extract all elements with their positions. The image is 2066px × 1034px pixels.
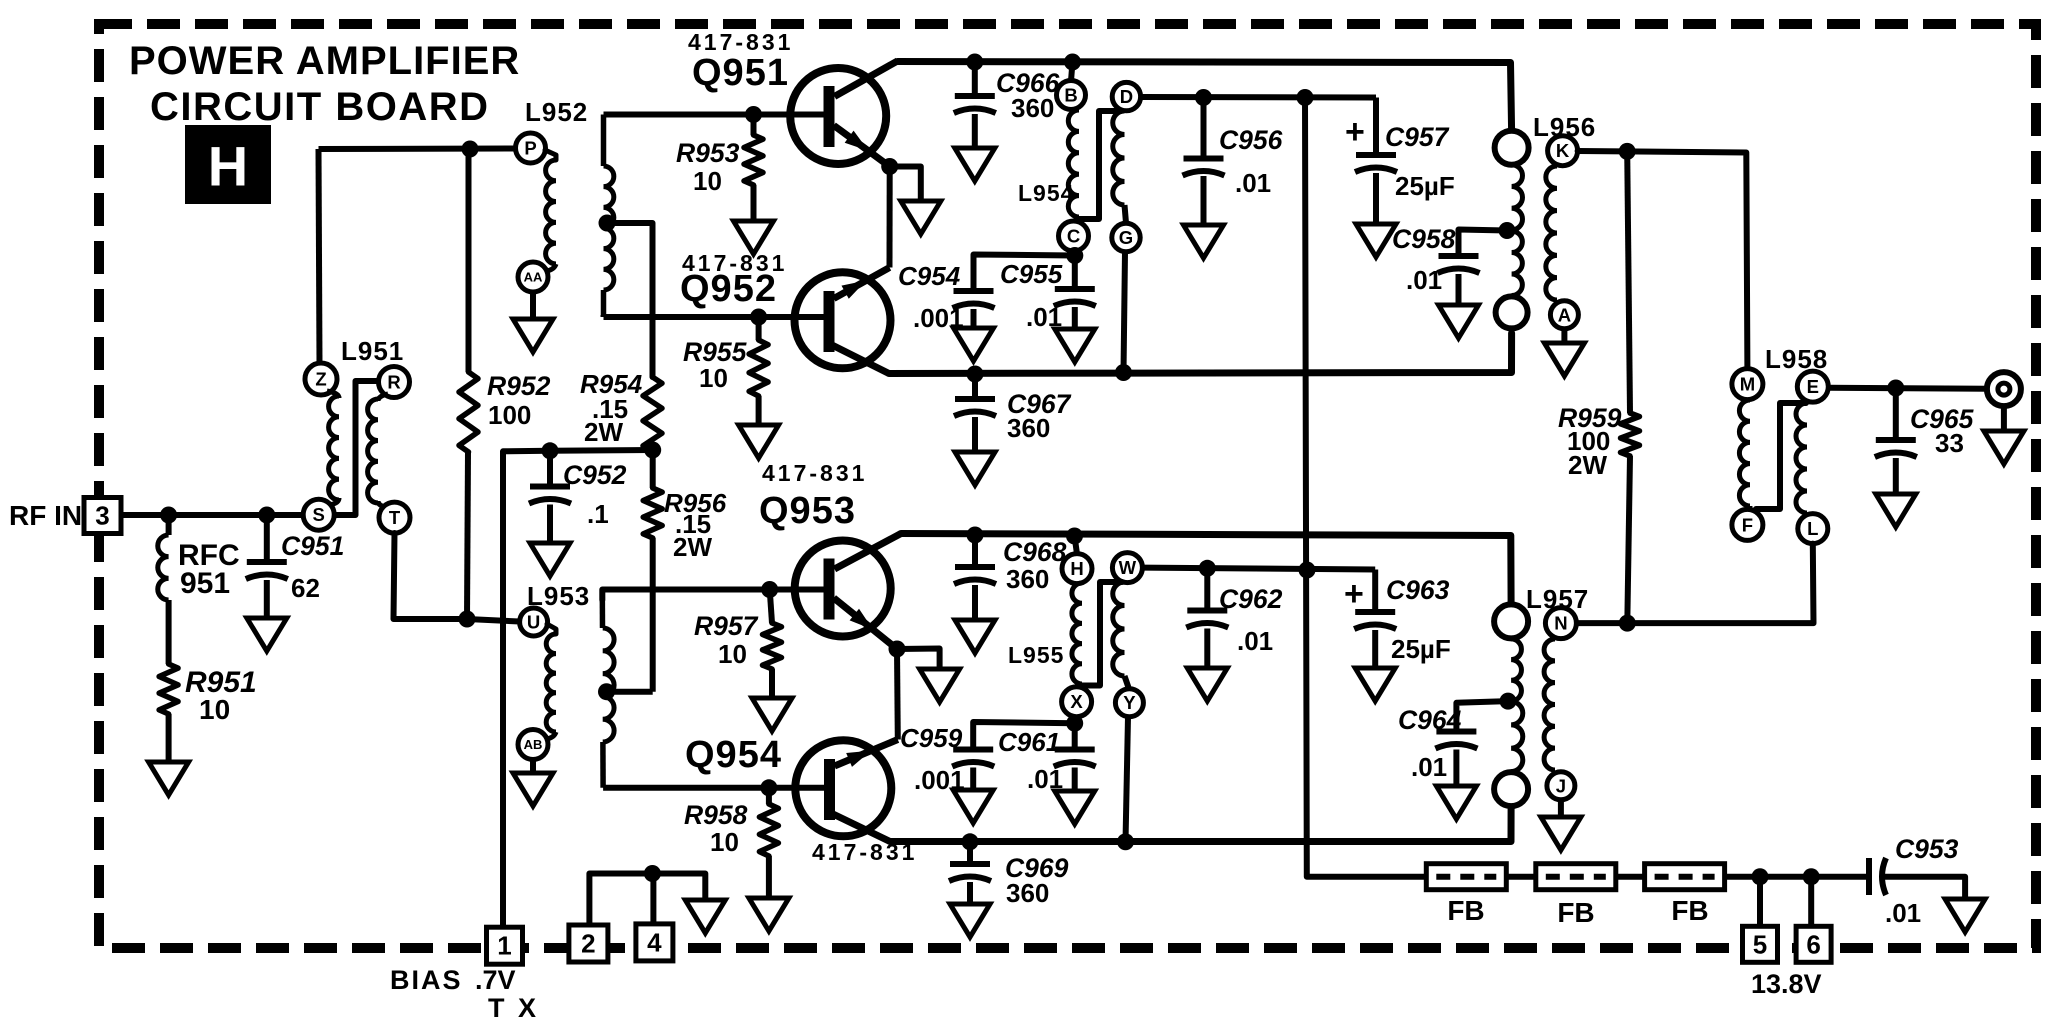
wire W bus (1142, 568, 1375, 570)
svg-text:.01: .01 (1885, 898, 1921, 928)
svg-text:B: B (1064, 85, 1077, 106)
transformer L952 primary P-AA (545, 150, 556, 271)
wire FB3 to C953 (1725, 874, 1869, 880)
R951 label (185, 666, 257, 725)
svg-text:Q951: Q951 (692, 52, 789, 94)
node junction Y bus (1117, 833, 1134, 850)
node junction K bus (1619, 143, 1636, 160)
TX label (488, 993, 539, 1023)
ground for 2-4 bracket (685, 900, 725, 933)
svg-text:L958: L958 (1765, 344, 1828, 374)
svg-text:U: U (527, 612, 540, 633)
node Y (1115, 689, 1143, 717)
svg-text:C964: C964 (1398, 705, 1462, 735)
node junction Q951 base (745, 106, 762, 123)
wire C969-gnd (967, 882, 973, 904)
svg-text:K: K (1556, 140, 1570, 161)
capacitor C965 (1875, 440, 1917, 457)
wire C959-gnd (970, 768, 976, 791)
resistor R955 (749, 340, 768, 396)
node AB (518, 730, 548, 760)
ground for C954 (954, 328, 994, 361)
wire R953-gnd (751, 185, 757, 221)
svg-text:C: C (1067, 226, 1080, 247)
svg-text:360: 360 (1011, 93, 1054, 123)
R956 label (664, 488, 727, 562)
inductor L957 secondary N-J (1544, 639, 1555, 770)
svg-text:C963: C963 (1386, 575, 1450, 605)
svg-text:10: 10 (718, 639, 747, 669)
wire Q953 emitter tap (897, 649, 940, 670)
wire A-gnd (1561, 329, 1567, 343)
resistor R951 (159, 664, 178, 714)
node junction Q954 base (760, 779, 777, 796)
wire R959 lower (1627, 456, 1630, 623)
wire RF input bus (121, 512, 304, 518)
svg-text:C957: C957 (1385, 122, 1450, 152)
ground for Q951 emitter (901, 201, 941, 234)
wire R956 stub (650, 450, 656, 488)
node junction terminal 6 (1803, 868, 1820, 885)
FB1 label (1447, 895, 1484, 926)
svg-text:E: E (1807, 376, 1819, 397)
inductor L955 winding W-Y (1113, 582, 1129, 689)
node junction B (1064, 54, 1081, 71)
L957 label (1526, 584, 1589, 614)
node junction supply riser W bus (1299, 562, 1316, 579)
wire C954-C955 bracket (974, 255, 1075, 292)
inductor L957 top terminal (1494, 604, 1528, 638)
wire L954 strap D-C (1078, 111, 1121, 219)
svg-text:25µF: 25µF (1391, 634, 1451, 664)
Q954 part number label (812, 839, 917, 865)
svg-text:C953: C953 (1895, 834, 1959, 864)
svg-text:13.8V: 13.8V (1751, 969, 1822, 999)
ground for O (1984, 431, 2024, 464)
inductor L956 bottom terminal (1496, 296, 1528, 328)
Q951 part number label (688, 29, 793, 55)
Q951 label (692, 52, 789, 94)
wire terminal 5 stub (1757, 877, 1763, 927)
inductor L955 winding H-X (1072, 583, 1082, 688)
terminal 4 (636, 924, 673, 961)
transformer L958 winding E-L (1796, 403, 1807, 513)
capacitor C953 (series) (1869, 858, 1886, 895)
wire C963-gnd (1372, 630, 1378, 668)
wire C963 stub (1372, 570, 1378, 613)
svg-text:33: 33 (1935, 428, 1964, 458)
inductor L956 secondary K-A (1546, 166, 1557, 300)
C965 label (1910, 404, 1975, 458)
wire C953 to gnd (1884, 877, 1965, 899)
svg-text:4: 4 (647, 927, 662, 957)
ferrite bead FB3 (1645, 864, 1725, 890)
wire Y to output bus (1126, 717, 1129, 842)
capacitor C956 (1183, 159, 1225, 176)
node T (379, 502, 410, 533)
wire U bus (467, 619, 520, 622)
svg-text:951: 951 (180, 567, 230, 600)
node Z (305, 363, 337, 395)
wire C965-gnd (1893, 458, 1899, 494)
ground for C957 (1356, 224, 1396, 257)
svg-text:.01: .01 (1235, 168, 1271, 198)
wire C961 stub (1072, 723, 1078, 749)
wire T to U-bus (394, 533, 468, 619)
wire terminal 4 stub (650, 874, 656, 925)
capacitor C968 (954, 567, 996, 584)
transformer L952 secondary (604, 115, 614, 318)
svg-text:FB: FB (1447, 895, 1484, 926)
svg-text:10: 10 (710, 827, 739, 857)
node X (1062, 687, 1092, 717)
transformer L958 winding M-F (1739, 400, 1750, 510)
wire C964-gnd (1453, 750, 1459, 787)
node junction Q951 emitter (881, 158, 898, 175)
BIAS label (390, 965, 516, 995)
node junction U bus (459, 611, 476, 628)
node junction C968 (967, 527, 984, 544)
node K (1548, 136, 1578, 166)
wire R957-gnd (769, 669, 775, 698)
svg-text:POWER AMPLIFIER: POWER AMPLIFIER (129, 39, 520, 83)
node junction below X (1066, 715, 1083, 732)
node junction G bus (1115, 364, 1132, 381)
svg-text:S: S (313, 504, 325, 525)
svg-text:417-831: 417-831 (762, 460, 867, 486)
wire C962-gnd (1204, 629, 1210, 669)
wire X stub (1075, 717, 1077, 724)
wire RFC951 stub (166, 515, 172, 535)
Q952 label (680, 268, 777, 310)
svg-text:2W: 2W (673, 532, 712, 562)
svg-text:C952: C952 (563, 460, 627, 490)
svg-text:Q954: Q954 (685, 734, 782, 776)
L958 label (1765, 344, 1828, 374)
svg-text:T: T (389, 507, 401, 528)
capacitor C966 (954, 96, 996, 113)
wire R958 stub (766, 788, 772, 804)
ground for C965 (1876, 494, 1916, 527)
wire C968-gnd (972, 585, 978, 620)
svg-text:BIAS: BIAS (390, 965, 463, 995)
node junction L956 center tap (1499, 222, 1516, 239)
C967 label (1007, 389, 1072, 443)
capacitor C955 (1054, 289, 1096, 306)
svg-text:Q952: Q952 (680, 268, 777, 310)
wire L952 secondary bottom to Q952 base (604, 315, 759, 317)
wire C stub (1074, 251, 1075, 256)
svg-text:L952: L952 (525, 97, 588, 127)
C961 label (998, 727, 1063, 794)
svg-text:X: X (1070, 691, 1083, 712)
R954 label (580, 369, 643, 447)
node junction L952 center tap (599, 215, 616, 232)
svg-text:R958: R958 (684, 800, 748, 830)
svg-text:10: 10 (199, 694, 230, 725)
capacitor C962 (1186, 611, 1228, 628)
wire L952 secondary top to Q951 base (604, 112, 754, 118)
C955 label (1000, 259, 1063, 332)
wire L955 strap W-X (1079, 582, 1122, 686)
node C (1059, 221, 1089, 251)
node junction L953 center tap (598, 683, 615, 700)
ground for R951 (149, 762, 189, 795)
svg-text:L953: L953 (527, 581, 590, 611)
svg-text:+: + (1345, 113, 1365, 151)
transformer L953 primary U-AB (546, 624, 556, 739)
Q952 part number label (682, 250, 787, 276)
wire L953 secondary top to Q953 base (602, 590, 769, 601)
terminal 5 (1743, 926, 1778, 962)
wire bias line (503, 451, 550, 927)
wire Q954 collector bus (890, 807, 1511, 842)
node W (1112, 553, 1142, 583)
svg-text:J: J (1556, 775, 1566, 796)
wire Q952 collector bus (889, 333, 1512, 374)
svg-text:R: R (387, 372, 400, 393)
svg-text:C956: C956 (1219, 125, 1283, 155)
transformer L951 winding R-T (368, 394, 388, 507)
transistor Q953 (770, 534, 901, 650)
svg-text:2: 2 (581, 929, 595, 959)
L952 label (525, 97, 588, 127)
wire Q951 emitter tap (890, 167, 921, 202)
C969 label (1005, 853, 1069, 908)
node junction Q953 base (761, 581, 778, 598)
wire AA-gnd (530, 292, 536, 319)
wire C957-gnd (1373, 173, 1379, 224)
svg-text:C959: C959 (900, 723, 963, 753)
node junction below C (1066, 247, 1083, 264)
ground for C969 (950, 904, 990, 937)
C966 label (996, 68, 1060, 123)
svg-text:C951: C951 (281, 531, 344, 561)
svg-text:FB: FB (1557, 897, 1594, 928)
wire C954-gnd (971, 309, 977, 328)
ground for R957 (752, 698, 792, 731)
wire C962 stub (1204, 568, 1210, 610)
svg-text:100: 100 (488, 400, 531, 430)
ground for AB (513, 773, 553, 806)
svg-text:+: + (1344, 575, 1364, 613)
C952 label (563, 460, 627, 529)
resistor R954 (643, 377, 662, 452)
wire R952 upper (466, 149, 472, 372)
wire C951 stub (264, 515, 270, 562)
transformer L953 secondary (602, 591, 614, 788)
capacitor C954 (953, 291, 995, 308)
svg-text:2W: 2W (1568, 450, 1607, 480)
svg-text:A: A (1558, 304, 1571, 325)
wire C967-gnd (972, 417, 978, 452)
svg-text:Z: Z (315, 369, 326, 390)
resistor R957 (763, 623, 782, 669)
wire D bus (1141, 94, 1376, 101)
capacitor C957 (1355, 155, 1397, 172)
svg-text:H: H (208, 135, 248, 198)
svg-text:3: 3 (95, 501, 109, 531)
capacitor C959 (952, 750, 994, 767)
ground for R955 (739, 425, 779, 458)
L953 label (527, 581, 590, 611)
wire C956 stub (1201, 98, 1207, 159)
wire Q951 emitter to Q952 (887, 167, 893, 268)
ground for C964 (1436, 786, 1476, 819)
svg-text:M: M (1740, 374, 1755, 395)
node junction R954-R956 (644, 442, 661, 459)
node D (1112, 82, 1140, 110)
R957 label (694, 611, 759, 669)
node junction C951 (258, 507, 275, 524)
capacitor C951 (246, 562, 288, 579)
wire AB-gnd (530, 760, 536, 774)
node junction Q953 emitter (889, 641, 906, 658)
FB2 label (1557, 897, 1594, 928)
svg-text:10: 10 (693, 166, 722, 196)
ground for C959 (953, 790, 993, 823)
node junction C969 (962, 833, 979, 850)
inductor RFC951 (158, 535, 169, 600)
svg-text:Y: Y (1123, 692, 1136, 713)
wire C956-gnd (1201, 176, 1207, 225)
inductor L957 primary lower (1511, 702, 1523, 772)
resistor R958 (759, 804, 778, 856)
ground for C952 (530, 543, 570, 576)
terminal 3 (RF IN) (84, 498, 121, 534)
wire R955-gnd (756, 396, 762, 425)
ground for AA (513, 319, 553, 352)
inductor L957 primary upper (1511, 639, 1521, 701)
C962 label (1219, 584, 1283, 656)
wire C957 stub (1373, 98, 1379, 156)
svg-text:.1: .1 (587, 499, 609, 529)
wire FB1-FB2 (1506, 874, 1536, 880)
node junction L957 center tap (1500, 693, 1517, 710)
resistor R953 (744, 135, 763, 185)
svg-text:AA: AA (524, 270, 543, 285)
inductor L954 winding B-C (1068, 110, 1079, 221)
svg-text:P: P (524, 138, 536, 159)
wire C952 stub (547, 451, 553, 487)
wire C959-C961 bracket (973, 722, 1074, 750)
svg-text:G: G (1119, 227, 1133, 248)
node junction N bus (1619, 615, 1636, 632)
node junction C962 (1199, 560, 1216, 577)
node A (1550, 301, 1578, 329)
terminal 2 (569, 925, 608, 962)
ground for C953 (1945, 899, 1985, 932)
wire C964 tap (1456, 701, 1508, 731)
node junction C965 (1887, 380, 1904, 397)
13.8V label (1751, 969, 1822, 999)
svg-text:.01: .01 (1411, 752, 1447, 782)
C963 label (1386, 575, 1451, 664)
wire C968 stub (972, 535, 978, 567)
capacitor C958 (1438, 256, 1480, 273)
wire RFC-R951 (166, 600, 172, 664)
ground for A (1544, 343, 1584, 376)
C957 label (1385, 122, 1455, 201)
capacitor C963 plus sign (1344, 575, 1364, 613)
transistor Q951 (754, 61, 898, 167)
Q953 part number label (762, 460, 867, 486)
node junction Q952 base (750, 309, 767, 326)
ground for R953 (734, 221, 774, 254)
ground for C958 (1439, 305, 1479, 338)
node O (RF out) (1987, 372, 2021, 406)
wire R952 lower (467, 452, 468, 619)
FB3 label (1671, 895, 1708, 926)
wire R957 stub (770, 590, 772, 624)
capacitor C964 (1435, 732, 1477, 749)
svg-text:C954: C954 (898, 261, 961, 291)
svg-text:62: 62 (291, 573, 320, 603)
node R (379, 367, 410, 398)
C959 label (900, 723, 965, 795)
wire Q953 collector bus (901, 534, 1511, 605)
wire C961-gnd (1072, 768, 1078, 792)
wire terminal 6 stub (1808, 877, 1814, 927)
C951 label (281, 531, 344, 603)
svg-text:FB: FB (1671, 895, 1708, 926)
wire C966-gnd (972, 114, 978, 148)
svg-text:C961: C961 (998, 727, 1060, 757)
svg-text:AB: AB (524, 737, 543, 752)
R955 label (683, 337, 748, 393)
svg-text:L951: L951 (341, 336, 404, 366)
ground for C961 (1055, 791, 1095, 824)
R952 label (487, 371, 551, 430)
node S (303, 499, 334, 530)
wire R953 stub (751, 115, 757, 136)
wire C952-gnd (547, 505, 553, 544)
wire L953 secondary bottom to Q954 base (603, 785, 769, 791)
wire J-gnd (1558, 800, 1564, 817)
svg-text:25µF: 25µF (1395, 171, 1455, 201)
wire terminal 2-4 bracket (589, 874, 705, 926)
node junction H (1066, 528, 1083, 545)
wire R959 upper (1627, 151, 1630, 413)
wire Q953 emitter to Q954 (894, 649, 901, 740)
C953 label (1885, 834, 1959, 928)
svg-text:R957: R957 (694, 611, 759, 641)
L954 label (1018, 180, 1074, 206)
wire 13.8V supply riser (1305, 98, 1427, 877)
node junction C966 (966, 54, 983, 71)
inductor L954 winding D-G (1113, 111, 1126, 223)
wire E to O (1828, 388, 1987, 389)
svg-text:W: W (1119, 557, 1137, 578)
ferrite bead FB1 (1426, 864, 1506, 890)
svg-text:10: 10 (699, 363, 728, 393)
transistor Q952 (759, 268, 891, 374)
svg-text:C962: C962 (1219, 584, 1283, 614)
ground for R958 (749, 898, 789, 931)
terminal 1 (BIAS) (487, 927, 523, 964)
capacitor C957 plus sign (1345, 113, 1365, 151)
capacitor C963 (1354, 612, 1396, 629)
ground for Q953 emitter (920, 669, 960, 702)
wire FB2-FB3 (1616, 874, 1644, 880)
wire C955 stub (1072, 256, 1078, 290)
C958 label (1392, 224, 1456, 295)
node J (1547, 772, 1575, 800)
svg-text:RF IN: RF IN (9, 500, 82, 531)
capacitor C967 (954, 399, 996, 416)
L951 label (341, 336, 404, 366)
wire Q951 collector bus (898, 62, 1512, 132)
